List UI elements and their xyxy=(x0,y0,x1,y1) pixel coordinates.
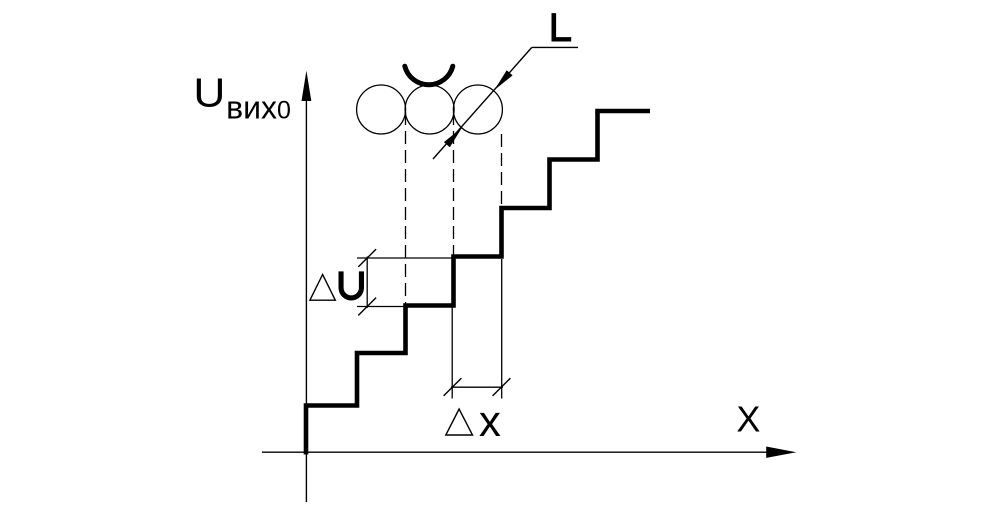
x-axis xyxy=(262,447,796,458)
L leader diagonal xyxy=(433,47,532,159)
L leader horizontal xyxy=(532,46,578,48)
dx label triangle xyxy=(446,409,473,435)
svg-text:U: U xyxy=(193,70,225,116)
circle 1 xyxy=(357,85,406,134)
dx tick left xyxy=(444,378,462,396)
staircase curve xyxy=(306,111,650,455)
dashed projection line 3 xyxy=(501,134,503,257)
label L xyxy=(551,13,571,41)
dx dimension line xyxy=(451,386,503,388)
dU top extension line xyxy=(357,257,454,259)
dashed projection line 1 xyxy=(405,112,407,353)
y-axis xyxy=(302,71,312,502)
circle 2 xyxy=(405,85,454,134)
dx right extension line xyxy=(501,259,503,399)
dU label U xyxy=(339,271,365,300)
diagonal arrowhead lower xyxy=(444,128,462,148)
dU tick bottom xyxy=(358,298,376,316)
thick arc above middle circle xyxy=(405,66,453,85)
dx tick right xyxy=(493,378,511,396)
svg-text:X: X xyxy=(736,399,760,440)
svg-text:x: x xyxy=(479,397,501,446)
dU bottom extension line xyxy=(357,306,406,308)
diagonal arrowhead upper xyxy=(494,70,512,90)
dashed projection line 2 xyxy=(453,112,455,306)
dU tick top xyxy=(358,249,376,267)
dU dimension line xyxy=(366,257,368,309)
dx left extension line xyxy=(451,307,453,399)
dU label triangle xyxy=(310,275,335,301)
circle 3 xyxy=(453,85,502,134)
